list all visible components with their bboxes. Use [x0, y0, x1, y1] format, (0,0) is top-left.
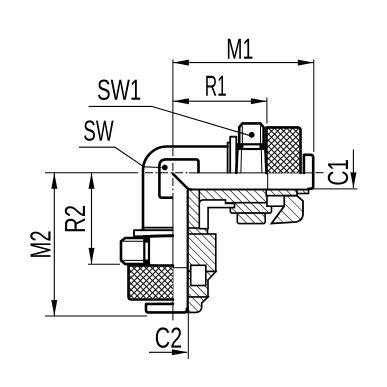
- svg-text:M2: M2: [25, 230, 57, 258]
- elbow body outer corner outline: [143, 147, 228, 230]
- C1 arrowhead: [350, 172, 356, 188]
- M1 extension line left (centerline): [172, 60, 174, 147]
- bore wall line, vertical branch: [187, 190, 189, 311]
- hex nut skirt sides, vertical branch: [149, 236, 173, 267]
- hex nut SW1 dome, horizontal branch: [239, 123, 263, 144]
- centerline extension below bottom stub: [172, 312, 174, 321]
- miter diagonal at bore junction: [173, 174, 192, 190]
- C1 dimension line: [352, 150, 354, 189]
- wrench-flats block (SW) outline: [159, 159, 198, 197]
- svg-text:C2: C2: [155, 323, 182, 355]
- SW leader line: [79, 147, 162, 167]
- hex nut flange band, vertical branch: [144, 236, 149, 266]
- bore line, horizontal branch: [190, 189, 308, 191]
- washer rings, vertical branch: [134, 228, 173, 237]
- svg-text:R2: R2: [60, 205, 92, 233]
- svg-text:R1: R1: [205, 71, 227, 103]
- R2 dimension line: [91, 173, 93, 264]
- svg-text:SW: SW: [83, 116, 114, 148]
- nut/body interface line, vertical branch: [174, 267, 188, 269]
- centerline horizontal axis (dashed, through elbow body): [145, 172, 190, 174]
- M2 arrowheads: [51, 173, 57, 316]
- nut/body interface line, horizontal branch: [267, 174, 269, 190]
- SW1 leader line: [89, 106, 250, 135]
- R1 dimension line: [173, 100, 267, 102]
- hex nut facet lines, vertical branch: [123, 235, 172, 268]
- M1 dimension line: [173, 62, 314, 64]
- M2 dimension line: [53, 173, 55, 316]
- knurled union nut, vertical branch: [129, 266, 173, 298]
- hex nut SW1 facet lines: [241, 126, 262, 173]
- M2 extension line bottom: [45, 315, 147, 317]
- R1 extension line right: [266, 98, 268, 124]
- C2 reference line: [187, 306, 189, 359]
- tube stub, vertical end: [146, 304, 187, 313]
- axis boundary line, horizontal branch: [189, 172, 313, 174]
- hex nut SW1 flange band: [237, 144, 266, 149]
- axis boundary line, vertical branch: [172, 198, 174, 312]
- C2 arrowhead: [172, 349, 188, 355]
- hex nut dome, vertical branch: [121, 238, 145, 264]
- C2 dimension line: [149, 351, 187, 353]
- R1 arrowheads: [173, 98, 267, 104]
- R2 extension line bottom: [88, 263, 120, 265]
- washer rings, horizontal branch: [228, 137, 237, 173]
- C1 centerline stub: [316, 172, 324, 174]
- svg-text:SW1: SW1: [97, 75, 141, 107]
- tube stub, horizontal end: [304, 155, 313, 189]
- hatched cone section at horizontal nut front: [272, 196, 304, 224]
- SW leader dot: [162, 165, 168, 171]
- leader dot on hex nut SW1: [249, 132, 255, 138]
- M1 extension line right: [313, 60, 315, 153]
- M1 arrowheads: [173, 60, 314, 66]
- centerline vertical axis (dashed, through elbow body): [172, 148, 174, 198]
- white thread pocket, horizontal nut section: [267, 196, 284, 207]
- M2 extension line top: [45, 172, 138, 174]
- svg-text:M1: M1: [226, 34, 253, 66]
- white thread pocket, vertical nut section: [191, 265, 206, 285]
- C1 reference line: [309, 188, 358, 190]
- hatched cross-section masses of elbow body and nuts: [188, 190, 309, 313]
- svg-text:C1: C1: [323, 159, 355, 186]
- knurled union nut, horizontal branch: [267, 128, 299, 173]
- hex nut SW1 skirt sides: [236, 149, 266, 173]
- R2 arrowheads: [89, 173, 95, 264]
- white bore-step pocket at inner corner: [191, 196, 285, 286]
